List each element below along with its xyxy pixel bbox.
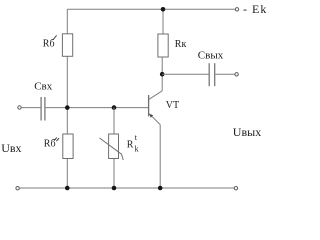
wire input right segment (base wire) — [46, 107, 149, 109]
svg-text:Rб: Rб — [43, 39, 55, 50]
wire thermistor branch — [113, 108, 115, 188]
svg-text:Rк: Rк — [175, 39, 187, 50]
svg-text:Rб: Rб — [44, 139, 56, 150]
terminal output lower — [234, 187, 237, 190]
wire output left segment — [162, 73, 208, 75]
junction top rail / collector branch — [161, 7, 166, 12]
terminal -Ek top right — [235, 8, 238, 11]
resistor R&#1073;'' — [63, 134, 73, 159]
junction bottom rail / emitter — [158, 186, 163, 191]
capacitor C&#1074;&#1093; — [41, 97, 45, 121]
terminal input — [18, 106, 21, 109]
terminal input lower — [16, 187, 19, 190]
junction bottom rail / thermistor — [112, 186, 117, 191]
svg-text:k: k — [135, 144, 139, 153]
wire input left segment — [21, 107, 40, 109]
label R&#1073;' — [43, 35, 57, 49]
svg-text:VT: VT — [166, 100, 179, 111]
wire collector branch lower — [161, 57, 163, 91]
svg-text:t: t — [135, 133, 138, 142]
capacitor C&#1074;&#1099;&#1093; — [209, 63, 215, 86]
junction bottom rail / R&#1073;'' — [65, 186, 70, 191]
junction base wire / R&#1073; divider — [65, 105, 70, 110]
label R&#1082;t — [127, 133, 139, 154]
wire bottom rail — [19, 187, 234, 189]
wire left branch vertical — [66, 9, 68, 188]
wire top supply rail — [67, 8, 235, 10]
resistor R&#1073;' — [62, 34, 72, 57]
resistor R&#1082; — [158, 34, 168, 57]
svg-text:Uвх: Uвх — [1, 141, 21, 155]
svg-text:Uвых: Uвых — [233, 125, 261, 139]
label R&#1073;'' — [44, 138, 59, 150]
svg-text:Свх: Свх — [34, 81, 53, 93]
svg-text:Свых: Свых — [198, 50, 224, 62]
wire collector branch upper — [162, 9, 164, 34]
junction base wire / thermistor branch — [112, 105, 117, 110]
svg-text:R: R — [127, 139, 134, 150]
svg-text:- Ek: - Ek — [243, 2, 267, 16]
terminal output upper — [235, 73, 238, 76]
wire output right segment — [215, 73, 234, 75]
wire emitter branch — [159, 125, 161, 188]
junction collector / output — [160, 72, 165, 77]
thermistor R&#1082;t — [100, 134, 124, 160]
transistor VT — [149, 91, 163, 125]
